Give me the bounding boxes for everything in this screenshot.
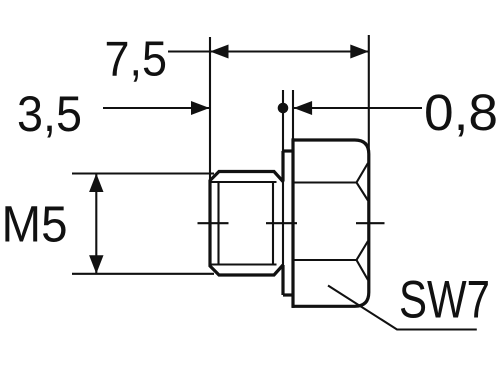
extension line right (x=368.6) for 7,5 — [368, 35, 370, 152]
arrowhead 0,8 left-pointing — [294, 101, 313, 115]
centerline tick at head right face — [356, 222, 385, 224]
arrowhead M5 up — [89, 174, 103, 193]
collar left face (x=283) — [281, 151, 284, 295]
hex head left face (x=293) — [291, 138, 294, 308]
hex chamfer chevron lower — [357, 241, 369, 280]
arrowhead 7,5 left — [210, 45, 229, 59]
extension line left (x=210) for 7,5 and 3,5 — [209, 37, 211, 181]
centerline tick at thread/head junction — [266, 222, 297, 224]
svg-text:7,5: 7,5 — [105, 33, 168, 87]
collar bottom step — [283, 293, 293, 296]
hex chamfer chevron upper — [357, 163, 369, 201]
svg-text:3,5: 3,5 — [17, 85, 82, 142]
hex face boundary line upper (thin) — [295, 181, 357, 183]
centerline tick at thread left face — [198, 222, 229, 224]
arrowhead M5 down — [89, 255, 103, 273]
thread root line top (thin) — [211, 181, 277, 183]
svg-text:M5: M5 — [2, 196, 68, 253]
thread outer profile (M5 section) with end chamfers and runout — [210, 172, 283, 276]
dimension line 3,5 — [103, 107, 209, 109]
dimension line 0,8 — [294, 107, 422, 109]
thread chamfer boundary (thin vertical x=218.5) — [217, 182, 219, 265]
collar top step — [283, 149, 293, 152]
hex face boundary line lower (thin) — [295, 259, 357, 261]
svg-text:0,8: 0,8 — [424, 84, 498, 141]
thread root line bottom (thin) — [211, 263, 277, 265]
arrowhead 3,5 right-pointing — [191, 101, 210, 115]
SW7 leader line — [328, 286, 477, 330]
extension line x=283 for 0,8 — [282, 90, 284, 151]
svg-text:SW7: SW7 — [399, 271, 490, 330]
extension line x=293 for 0,8 — [292, 90, 294, 140]
dimension line 7,5 — [168, 50, 369, 52]
hex head outline: top edge, rounded right corners, right face, bottom edge — [292, 140, 369, 306]
dimension line M5 — [95, 174, 97, 274]
thread runout boundary (thin vertical x=273) — [272, 181, 274, 266]
dot terminator at x=283 shared by 3,5 and 0,8 — [278, 103, 289, 114]
arrowhead 7,5 right — [350, 45, 369, 59]
extension line top (y=173.5) for M5 — [72, 172, 214, 174]
extension line bottom (y=273.8) for M5 — [72, 273, 214, 275]
